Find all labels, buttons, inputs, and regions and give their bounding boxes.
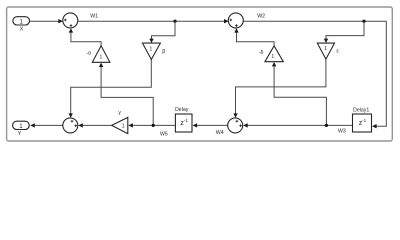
sum block Sum3 bbox=[63, 118, 78, 133]
inport X bbox=[13, 17, 30, 25]
sum block Sum2 bbox=[228, 13, 243, 28]
node W3 junction bbox=[325, 124, 328, 127]
wire gain epsilon output down to sum4 top bbox=[236, 59, 326, 114]
wire W1 branch down to gain beta bbox=[152, 21, 176, 39]
gain block epsilon (down) bbox=[317, 43, 334, 59]
wire sum4 output to Delay input bbox=[197, 124, 228, 126]
sum block Sum1 bbox=[63, 13, 78, 28]
wire W2 sum2 right and down to Delay1 bbox=[243, 21, 386, 126]
svg-text:W2: W2 bbox=[257, 14, 265, 20]
wire Delay1 output to sum4 right bbox=[248, 124, 353, 126]
node W1 junction bbox=[173, 20, 176, 23]
svg-text:W3: W3 bbox=[338, 129, 346, 135]
svg-text:X: X bbox=[20, 27, 24, 33]
subsystem border frame bbox=[7, 7, 393, 141]
svg-text:W5: W5 bbox=[160, 131, 168, 137]
wire gain -a output to sum1 bottom bbox=[71, 32, 101, 46]
wire gain -d output to sum2 bottom bbox=[237, 32, 275, 46]
wire W2 branch down to gain epsilon bbox=[326, 21, 364, 39]
svg-text:1: 1 bbox=[100, 54, 103, 60]
gain block -d (up) bbox=[265, 46, 283, 62]
svg-text:1: 1 bbox=[150, 46, 153, 52]
svg-text:-δ: -δ bbox=[259, 50, 264, 56]
svg-text:Y: Y bbox=[18, 131, 22, 137]
svg-text:W4: W4 bbox=[216, 130, 224, 136]
svg-text:-1: -1 bbox=[362, 118, 367, 123]
svg-text:1: 1 bbox=[324, 46, 327, 52]
gain block -a (up) bbox=[92, 46, 110, 63]
wire W5 branch up to gain -a input bbox=[101, 67, 153, 126]
wire sum3 output to outport Y bbox=[35, 124, 63, 126]
svg-text:-1: -1 bbox=[184, 118, 189, 123]
svg-text:1: 1 bbox=[122, 124, 125, 130]
wire Delay output to gain gamma bbox=[133, 124, 176, 126]
wire W1 sum1 to sum2 bbox=[78, 20, 224, 22]
svg-text:Delay: Delay bbox=[175, 107, 189, 113]
node W2 junction bbox=[362, 20, 365, 23]
unit delay block Delay1 bbox=[353, 114, 372, 132]
svg-text:1: 1 bbox=[271, 54, 274, 60]
sum block Sum4 bbox=[228, 118, 243, 133]
unit delay block Delay bbox=[175, 114, 192, 132]
gain block beta (down) bbox=[143, 43, 161, 59]
gain block gamma (left) bbox=[112, 117, 128, 133]
wire gain gamma output to sum3 right bbox=[83, 124, 112, 126]
wire gain beta output down to sum3 top bbox=[71, 60, 152, 114]
node W5 junction bbox=[152, 124, 155, 127]
wire W3 branch up to gain -d input bbox=[274, 66, 326, 125]
svg-text:-α: -α bbox=[86, 50, 91, 56]
svg-text:Delay1: Delay1 bbox=[353, 107, 369, 113]
svg-text:W1: W1 bbox=[90, 14, 98, 20]
outport Y bbox=[13, 121, 30, 129]
svg-text:β: β bbox=[162, 49, 165, 55]
wire inport X to sum1 bbox=[30, 20, 59, 22]
